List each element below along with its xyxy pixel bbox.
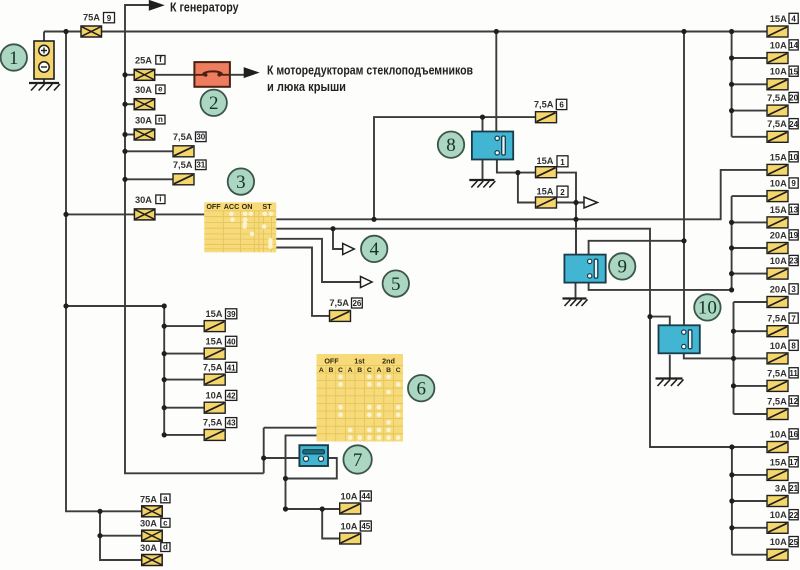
svg-text:15A: 15A <box>770 14 787 24</box>
wire to fuse 39 <box>164 325 204 327</box>
fuse 10A 8 <box>767 353 788 364</box>
svg-text:10A: 10A <box>770 510 787 520</box>
label 15A 13 <box>770 204 799 215</box>
junction <box>729 108 734 113</box>
svg-text:9: 9 <box>107 14 112 23</box>
fuse 10A 14 <box>767 53 788 64</box>
wire ignition bus 1 <box>276 170 767 219</box>
junction <box>729 472 734 477</box>
label 75A 9 <box>83 13 115 23</box>
label 10A 22 <box>770 510 799 521</box>
fusible link 30A c <box>142 530 163 541</box>
wire to switch 7 input <box>264 457 300 459</box>
junction <box>573 200 578 205</box>
wire to fuse 42 <box>164 407 204 409</box>
fuse 10A 25 <box>767 549 788 560</box>
wire main trunk x125 down to lower feed <box>125 32 264 474</box>
svg-text:7,5A: 7,5A <box>203 418 223 428</box>
wire to fuse 15 <box>732 83 767 85</box>
svg-text:e: e <box>158 85 163 94</box>
wire ignition output to arrow 5 <box>276 239 361 282</box>
fuse 7,5A 41 <box>204 374 225 385</box>
arrow 4 <box>343 244 355 255</box>
junction <box>283 506 288 511</box>
label 20A 3 <box>770 284 798 295</box>
wire relay 8 contact feed from top bus <box>495 32 497 137</box>
wire relay 9 output <box>589 274 732 290</box>
wire fuse 2 output to arrow <box>557 202 585 204</box>
wire ignition bus 2 <box>276 229 767 447</box>
svg-text:a: a <box>163 494 168 503</box>
fuse 15A 10 <box>767 164 788 175</box>
svg-text:4: 4 <box>791 15 796 24</box>
label 15A 17 <box>770 457 799 468</box>
label 7,5A 7 <box>767 313 798 324</box>
label 20A 19 <box>770 230 799 241</box>
svg-text:OFF: OFF <box>206 202 221 211</box>
wire battery to top bus <box>43 32 45 42</box>
svg-text:20: 20 <box>789 94 798 103</box>
fuse 15A 39 <box>204 321 225 332</box>
fuse 15A 1 <box>536 167 557 178</box>
fusible link 30A d <box>142 555 163 566</box>
svg-text:3: 3 <box>236 172 246 193</box>
wire drop to relay 8 coil <box>482 117 484 131</box>
label 30A i <box>135 195 165 205</box>
label 15A 40 <box>205 336 236 346</box>
svg-text:20A: 20A <box>770 284 787 294</box>
svg-text:7,5A: 7,5A <box>173 160 193 170</box>
callout 8 <box>438 132 464 158</box>
svg-text:10A: 10A <box>340 491 357 501</box>
wire right column feed v1 <box>731 32 733 137</box>
arrow 5 <box>361 277 373 288</box>
ground of relay 8 <box>469 180 495 188</box>
callout 3 <box>228 168 254 194</box>
svg-text:19: 19 <box>789 231 798 240</box>
svg-text:A: A <box>348 367 353 374</box>
label 10A 45 <box>340 521 371 531</box>
svg-text:10A: 10A <box>770 256 787 266</box>
wire to heater table input 1 <box>264 427 317 429</box>
fuse 7,5A 7 <box>767 326 788 337</box>
svg-text:8: 8 <box>446 135 456 156</box>
svg-text:10A: 10A <box>205 390 222 400</box>
wire relay 8 coil to ground <box>482 159 484 180</box>
svg-text:30A: 30A <box>135 115 152 125</box>
wire ignition output to fuse 26 <box>276 248 329 316</box>
svg-text:40: 40 <box>227 337 236 346</box>
wire fuse i feed from trunk x66 <box>66 213 134 215</box>
svg-text:7,5A: 7,5A <box>767 396 787 406</box>
svg-text:10A: 10A <box>340 521 357 531</box>
label 7,5A 12 <box>767 396 798 407</box>
svg-text:25A: 25A <box>135 56 152 66</box>
wire branch to fuse 45 <box>322 509 340 539</box>
fusible link 75A 9 <box>81 26 102 37</box>
svg-text:i: i <box>159 195 161 204</box>
callout 10 <box>694 294 720 320</box>
svg-text:7,5A: 7,5A <box>767 368 787 378</box>
junction <box>731 383 736 388</box>
svg-text:30A: 30A <box>135 85 152 95</box>
wire fuse 1 output loop <box>557 173 577 203</box>
fuse 7,5A 24 <box>767 131 788 142</box>
callout 6 <box>408 375 434 401</box>
svg-text:7,5A: 7,5A <box>534 100 554 110</box>
svg-text:и люка крыши: и люка крыши <box>267 79 346 94</box>
svg-text:C: C <box>338 367 343 374</box>
fuse 7,5A 30 <box>173 146 194 157</box>
svg-text:14: 14 <box>789 41 798 50</box>
svg-text:OFF: OFF <box>324 357 339 366</box>
svg-text:C: C <box>367 367 372 374</box>
wire to fuse 13 <box>732 221 767 223</box>
svg-text:10A: 10A <box>770 341 787 351</box>
svg-text:К моторедукторам стеклоподъемн: К моторедукторам стеклоподъемников <box>267 63 473 78</box>
svg-text:15A: 15A <box>205 336 222 346</box>
junction <box>122 132 127 137</box>
wire relay 2 to arrow <box>230 74 245 76</box>
fan switch table 6 <box>317 354 404 442</box>
label 7,5A 11 <box>767 368 798 379</box>
fuse 10A 9 <box>767 191 788 202</box>
junction <box>729 271 734 276</box>
junction <box>729 525 734 530</box>
svg-text:45: 45 <box>361 522 370 531</box>
fuse 7,5A 6 <box>536 112 557 123</box>
svg-text:42: 42 <box>227 392 236 401</box>
wire x684 from top bus to relay 10 contact <box>683 32 685 334</box>
label 7,5A 20 <box>767 92 798 103</box>
wire to fuse 8 <box>734 357 768 359</box>
fusible link 30A n <box>134 129 155 140</box>
fuse 15A 17 <box>767 469 788 480</box>
wire riser to heater table input 2 <box>286 435 317 478</box>
junction <box>261 455 266 460</box>
fuse 20A 19 <box>767 243 788 254</box>
wire to fuse 40 <box>164 353 204 355</box>
svg-text:2nd: 2nd <box>382 357 395 366</box>
svg-text:22: 22 <box>789 511 798 520</box>
svg-text:ST: ST <box>262 202 272 211</box>
svg-text:f: f <box>159 55 162 64</box>
svg-text:5: 5 <box>391 274 401 295</box>
svg-text:30A: 30A <box>135 195 152 205</box>
fuse 7,5A 26 <box>330 310 351 321</box>
arrow after fuse 2 <box>584 197 598 208</box>
fuse 7,5A 20 <box>767 105 788 116</box>
callout 1 <box>1 44 27 70</box>
wire relay 8 coil feed from bus 1 <box>374 117 536 219</box>
svg-text:12: 12 <box>789 397 798 406</box>
label 15A 10 <box>770 152 799 163</box>
label 10A 9 <box>770 178 798 189</box>
svg-text:15A: 15A <box>536 186 553 196</box>
battery 1 <box>34 41 54 79</box>
label 10A 42 <box>205 390 236 400</box>
label 30A n <box>135 115 165 125</box>
svg-text:7,5A: 7,5A <box>173 132 193 142</box>
wire to fuse 21 <box>732 500 767 502</box>
svg-text:15A: 15A <box>770 152 787 162</box>
wire fuse 30 stub <box>125 150 173 152</box>
fuse 15A 4 <box>767 26 788 37</box>
fuse 10A 44 <box>340 503 361 514</box>
wire to fuse 7 <box>734 330 768 332</box>
svg-text:6: 6 <box>416 379 426 400</box>
svg-text:10: 10 <box>789 153 798 162</box>
junction <box>122 177 127 182</box>
svg-text:11: 11 <box>789 369 798 378</box>
wire to fuse 19 <box>732 247 767 249</box>
wire fuse f row <box>125 74 134 76</box>
svg-text:10: 10 <box>698 298 717 319</box>
label 10A 15 <box>770 66 799 77</box>
wire top bus from battery to fuse 4 <box>44 31 767 33</box>
fuse 7,5A 31 <box>173 174 194 185</box>
svg-text:B: B <box>386 367 391 374</box>
wire down to fuse 44 <box>286 479 340 510</box>
svg-text:75A: 75A <box>83 13 100 23</box>
fuse 10A 42 <box>204 402 225 413</box>
svg-text:1: 1 <box>9 48 19 69</box>
junction <box>729 82 734 87</box>
label 10A 25 <box>770 537 799 548</box>
junction <box>162 324 167 329</box>
wire to fuse 14 <box>732 57 767 59</box>
wire lower feed riser to heater switch <box>263 428 265 474</box>
label 7,5A 41 <box>203 362 237 372</box>
wire relay 9 contact riser <box>589 241 684 256</box>
wire relay 10 output <box>684 349 734 359</box>
junction <box>320 506 325 511</box>
label 7,5A 43 <box>203 418 237 428</box>
junction <box>729 287 734 292</box>
svg-text:7,5A: 7,5A <box>203 362 223 372</box>
label 7,5A 24 <box>767 119 798 130</box>
wire to fuse 24 <box>732 136 767 138</box>
wire battery to ground <box>43 79 45 83</box>
arrow to window motors <box>244 67 260 78</box>
svg-text:ACC: ACC <box>224 202 240 211</box>
wire right column feed vC <box>731 447 733 555</box>
wire relay 10 coil feed <box>650 317 670 326</box>
junction <box>162 377 167 382</box>
svg-text:21: 21 <box>789 484 798 493</box>
svg-text:7,5A: 7,5A <box>767 314 787 324</box>
junction <box>729 245 734 250</box>
svg-text:10A: 10A <box>770 537 787 547</box>
fan switch contact dots <box>338 375 400 440</box>
fuse 10A 15 <box>767 79 788 90</box>
svg-text:24: 24 <box>789 120 798 129</box>
callout 4 <box>361 236 387 262</box>
junction <box>480 115 485 120</box>
svg-text:13: 13 <box>789 206 798 215</box>
ground of relay 10 <box>656 379 684 387</box>
wire to fuse 25 <box>732 554 767 556</box>
junction <box>63 303 68 308</box>
wire right column feed vB <box>733 302 735 414</box>
svg-text:d: d <box>163 543 168 552</box>
fuse 20A 3 <box>767 297 788 308</box>
junction <box>283 476 288 481</box>
label 30A c <box>140 518 170 528</box>
label 7,5A 31 <box>173 160 206 170</box>
svg-text:4: 4 <box>369 239 379 260</box>
wire fuse e stub <box>125 103 134 105</box>
label 7,5A 26 <box>329 298 362 308</box>
svg-text:16: 16 <box>789 430 798 439</box>
wire to fuse 41 <box>164 379 204 381</box>
svg-text:26: 26 <box>352 299 361 308</box>
junction <box>729 55 734 60</box>
fusible link 25A f <box>134 69 155 80</box>
fusible link 30A i <box>134 209 155 220</box>
junction <box>729 444 734 449</box>
svg-text:7: 7 <box>791 314 796 323</box>
svg-text:B: B <box>328 367 333 374</box>
wire relay 8 output <box>497 155 536 173</box>
callout 7 <box>343 445 371 473</box>
fuse 10A 23 <box>767 268 788 279</box>
junction <box>162 303 167 308</box>
wire to fuse 23 <box>732 273 767 275</box>
svg-text:17: 17 <box>789 458 798 467</box>
arrow to generator <box>149 0 165 11</box>
label 7,5A 30 <box>173 132 206 142</box>
wire relay 10 coil to ground <box>669 355 671 379</box>
wire right column feed vA <box>731 196 733 290</box>
svg-text:8: 8 <box>791 342 796 351</box>
svg-text:15A: 15A <box>205 309 222 319</box>
callout 5 <box>383 270 409 296</box>
junction <box>162 405 167 410</box>
junction <box>729 220 734 225</box>
svg-text:2: 2 <box>560 188 565 197</box>
wire fuse f to window-lift relay <box>155 74 195 76</box>
wire to fuse 9 <box>732 195 767 197</box>
label 10A 16 <box>770 429 799 440</box>
label 15A 4 <box>770 13 798 24</box>
svg-text:A: A <box>319 367 324 374</box>
junction <box>122 149 127 154</box>
junction <box>731 329 736 334</box>
ignition switch contact dots <box>229 212 273 249</box>
wire to fuse 43 <box>164 434 204 436</box>
svg-text:30A: 30A <box>140 519 157 529</box>
fuse 7,5A 43 <box>204 429 225 440</box>
callout 9 <box>609 253 635 279</box>
fusible link 30A e <box>134 99 155 110</box>
fuse 3A 21 <box>767 496 788 507</box>
svg-text:15: 15 <box>789 67 798 76</box>
label 30A d <box>140 543 170 553</box>
junction <box>681 238 686 243</box>
fuse 10A 22 <box>767 522 788 533</box>
wire branch to fuse c <box>100 535 142 537</box>
svg-text:1: 1 <box>560 158 565 167</box>
svg-text:7,5A: 7,5A <box>767 93 787 103</box>
label 10A 8 <box>770 340 798 351</box>
ground of battery <box>29 83 60 91</box>
junction <box>515 170 520 175</box>
wire switch 7 output loop <box>286 458 337 479</box>
svg-text:К генератору: К генератору <box>170 0 239 15</box>
svg-text:15A: 15A <box>536 156 553 166</box>
svg-text:9: 9 <box>791 179 796 188</box>
junction <box>97 533 102 538</box>
wire left trunk x66 <box>66 32 142 512</box>
junction <box>731 356 736 361</box>
junction <box>494 29 499 34</box>
label 25A f <box>135 55 165 65</box>
label 10A 14 <box>770 40 799 51</box>
wire generator branch <box>125 5 149 32</box>
ignition switch 3 <box>204 202 276 252</box>
wire relay 9 coil to ground <box>575 281 577 298</box>
junction <box>122 72 127 77</box>
fuse 7,5A 12 <box>767 409 788 420</box>
wire to fuse 22 <box>732 527 767 529</box>
fuse 10A 16 <box>767 442 788 453</box>
junction <box>371 217 376 222</box>
label 75A a <box>140 494 170 504</box>
label 3A 21 <box>775 483 799 494</box>
svg-text:75A: 75A <box>140 494 157 504</box>
svg-text:31: 31 <box>196 161 205 170</box>
junction <box>729 29 734 34</box>
svg-text:n: n <box>158 115 163 124</box>
wire fuse i to ignition switch <box>155 213 204 215</box>
wire to fuse 3 <box>734 301 768 303</box>
junction <box>330 226 335 231</box>
wire branch to fuse 2 <box>518 173 536 203</box>
fusible link 75A a <box>142 506 163 517</box>
junction <box>681 29 686 34</box>
svg-text:3A: 3A <box>775 483 787 493</box>
junction <box>162 432 167 437</box>
svg-text:c: c <box>163 518 168 527</box>
junction <box>63 29 68 34</box>
svg-text:23: 23 <box>789 257 798 266</box>
svg-text:44: 44 <box>361 492 370 501</box>
svg-text:25: 25 <box>789 538 798 547</box>
svg-text:43: 43 <box>227 419 236 428</box>
svg-text:9: 9 <box>617 257 627 278</box>
relay 9 <box>564 255 605 283</box>
junction <box>729 498 734 503</box>
svg-text:3: 3 <box>791 285 796 294</box>
svg-text:30A: 30A <box>140 543 157 553</box>
svg-text:15A: 15A <box>770 205 787 215</box>
ground of relay 9 <box>563 299 588 307</box>
fuse 15A 2 <box>536 197 557 208</box>
svg-text:1st: 1st <box>354 357 365 366</box>
junction <box>122 102 127 107</box>
label 7,5A 6 <box>534 99 567 109</box>
wire fuse n stub <box>125 134 134 136</box>
wire fuse 31 stub <box>125 178 173 180</box>
svg-text:C: C <box>396 367 401 374</box>
junction <box>573 217 578 222</box>
wire drop from fuse 2 row to relay 9 coil <box>575 203 577 255</box>
wire to fuse 17 <box>732 474 767 476</box>
junction <box>63 212 68 217</box>
svg-text:15A: 15A <box>770 457 787 467</box>
svg-text:41: 41 <box>227 363 236 372</box>
